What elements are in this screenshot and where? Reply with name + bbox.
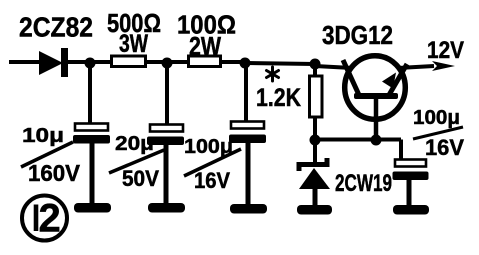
capacitor C2 vertical lead (165, 63, 169, 125)
wire node D to R3 (313, 64, 317, 77)
capacitor C3 100u 16V (229, 122, 267, 214)
collector lead (343, 60, 359, 95)
capacitor C3 vertical lead (244, 63, 248, 122)
svg-text:100μ: 100μ (413, 107, 460, 129)
wire R3 to node E (313, 116, 317, 140)
capacitor C1 vertical lead (88, 63, 92, 124)
wire node A to R1 (90, 60, 111, 64)
node B junction dot (162, 58, 173, 69)
transistor Q1 3DG12 (343, 56, 407, 140)
wire R1 to node B (145, 60, 167, 64)
svg-text:2CW19: 2CW19 (335, 170, 392, 197)
base bar (354, 93, 398, 99)
svg-text:160V: 160V (28, 160, 81, 186)
svg-text:16V: 16V (425, 135, 464, 160)
node C junction dot (240, 58, 251, 69)
label asterisk (267, 67, 279, 81)
svg-text:3DG12: 3DG12 (322, 20, 393, 50)
zener diode ZD 2CW19 (297, 140, 332, 215)
capacitor C2 20u 50V (147, 125, 185, 213)
figure number 12 circled (22, 196, 67, 241)
node D junction dot (310, 59, 321, 70)
svg-text:12V: 12V (427, 37, 464, 64)
wire node E to node F base rail (315, 138, 401, 142)
svg-text:10μ: 10μ (22, 125, 64, 147)
wire node B to R2 (167, 60, 188, 64)
svg-text:50V: 50V (122, 166, 159, 191)
wire emitter to output (398, 66, 434, 68)
wire corner down to C4 (399, 140, 403, 162)
node A junction dot (85, 58, 96, 69)
wire node C to node D (245, 63, 315, 64)
node F junction dot (371, 135, 382, 146)
capacitor C4 100u 16V output side (393, 160, 430, 215)
svg-text:2CZ82: 2CZ82 (19, 12, 93, 43)
wire input left stub (9, 60, 42, 64)
capacitor C1 10u 160V (73, 124, 111, 213)
wire node D to transistor collector (315, 66, 352, 68)
svg-text:16V: 16V (194, 168, 230, 193)
emitter lead (389, 64, 407, 95)
svg-text:1.2K: 1.2K (256, 84, 301, 112)
svg-text:2: 2 (39, 197, 61, 241)
svg-text:20μ: 20μ (115, 133, 154, 155)
stray dot (76, 204, 83, 211)
base down lead (374, 98, 379, 140)
resistor R1 500 ohm (112, 56, 146, 67)
wire R2 to node C (220, 60, 245, 64)
output arrowhead (432, 61, 455, 71)
emitter arrowhead (382, 73, 396, 89)
node E junction dot (310, 135, 321, 146)
svg-text:2W: 2W (189, 31, 221, 61)
svg-text:3W: 3W (119, 30, 148, 58)
resistor R3 1.2K vertical (310, 76, 323, 117)
diode D1 2CZ82 (39, 48, 88, 77)
resistor R2 100 ohm (189, 56, 221, 67)
